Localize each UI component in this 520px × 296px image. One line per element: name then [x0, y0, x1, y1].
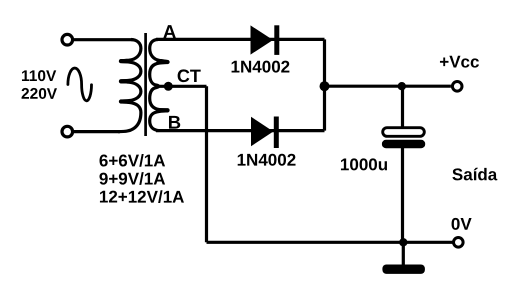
wire +Vcc horizontal: [325, 85, 451, 88]
junction dot right rail: [320, 81, 330, 91]
terminal 0V: [454, 238, 464, 248]
right rail vertical wire: [323, 39, 326, 130]
transformer T1 primary winding: [118, 40, 141, 132]
svg-text:1N4002: 1N4002: [237, 151, 297, 170]
AC source sine symbol: [68, 68, 92, 101]
svg-text:B: B: [168, 112, 181, 133]
diode D1 (top 1N4002) triangle: [251, 25, 274, 54]
svg-text:12+12V/1A: 12+12V/1A: [99, 188, 185, 207]
ground symbol bar: [382, 265, 425, 274]
svg-text:6+6V/1A: 6+6V/1A: [99, 151, 166, 170]
wire B to diode D2 and right rail: [156, 129, 325, 132]
transformer core: [144, 33, 147, 136]
svg-text:Saída: Saída: [452, 165, 498, 184]
terminal input top-left: [62, 34, 73, 45]
diode D2 cathode bar: [274, 117, 279, 149]
terminal +Vcc: [452, 82, 462, 92]
diode D1 cathode bar: [274, 25, 279, 55]
capacitor C1 top plate (curved outline): [383, 128, 425, 137]
CT drop vertical wire: [205, 86, 208, 242]
primary winding hairpin ticks: [121, 61, 130, 101]
wire 0V bottom rail: [207, 241, 453, 244]
center tap junction dot: [164, 82, 173, 91]
secondary winding hairpin ticks: [159, 62, 168, 110]
wire primary top: [74, 38, 134, 41]
wire primary bottom: [74, 130, 120, 133]
junction dot bottom rail: [399, 238, 407, 246]
wire capacitor top lead: [401, 86, 404, 127]
svg-text:1N4002: 1N4002: [231, 58, 291, 77]
svg-text:220V: 220V: [21, 86, 58, 103]
wire ground lead: [402, 242, 405, 264]
svg-text:CT: CT: [177, 66, 201, 86]
junction dot capacitor top: [398, 82, 406, 90]
svg-text:110V: 110V: [21, 68, 57, 85]
svg-text:0V: 0V: [451, 215, 472, 234]
diode D2 (bottom 1N4002) triangle: [251, 117, 273, 146]
capacitor C1 bottom plate (solid): [382, 140, 425, 148]
svg-text:9+9V/1A: 9+9V/1A: [99, 169, 166, 188]
transformer T1 secondary winding: [150, 40, 168, 131]
center tap wire CT: [156, 85, 207, 88]
svg-text:1000u: 1000u: [340, 155, 388, 174]
svg-text:A: A: [163, 22, 177, 43]
svg-text:+Vcc: +Vcc: [439, 53, 479, 72]
wire capacitor bottom lead: [401, 148, 404, 242]
wire A to diode D1 and right rail: [156, 38, 325, 41]
terminal input bottom-left: [62, 126, 73, 137]
